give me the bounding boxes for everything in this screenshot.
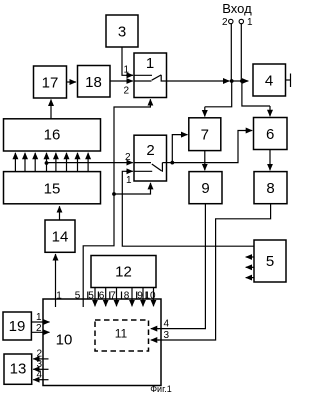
svg-text:18: 18 xyxy=(85,74,102,91)
svg-text:9: 9 xyxy=(137,291,143,302)
svg-text:3: 3 xyxy=(164,330,170,341)
svg-text:1: 1 xyxy=(126,175,132,186)
svg-text:2: 2 xyxy=(37,349,43,360)
svg-text:2: 2 xyxy=(36,323,42,334)
svg-text:6: 6 xyxy=(266,126,274,143)
svg-text:17: 17 xyxy=(42,75,59,92)
svg-text:8: 8 xyxy=(266,180,274,197)
svg-text:9: 9 xyxy=(201,180,209,197)
svg-text:1: 1 xyxy=(124,65,130,76)
svg-text:2: 2 xyxy=(125,152,131,163)
svg-text:7: 7 xyxy=(201,127,209,144)
svg-text:1: 1 xyxy=(56,291,62,302)
svg-text:11: 11 xyxy=(115,327,128,341)
svg-text:4: 4 xyxy=(265,73,273,90)
svg-text:2: 2 xyxy=(146,142,154,159)
svg-text:5: 5 xyxy=(88,291,94,302)
svg-text:6: 6 xyxy=(99,291,105,302)
svg-text:14: 14 xyxy=(52,229,69,246)
svg-text:1: 1 xyxy=(247,17,253,28)
svg-text:10: 10 xyxy=(56,332,73,349)
svg-text:19: 19 xyxy=(9,318,26,335)
svg-text:1: 1 xyxy=(36,312,42,323)
svg-text:1: 1 xyxy=(146,55,154,72)
svg-text:5: 5 xyxy=(266,253,274,270)
svg-text:3: 3 xyxy=(118,24,126,41)
svg-text:3: 3 xyxy=(37,359,43,370)
svg-text:4: 4 xyxy=(37,370,43,381)
svg-text:13: 13 xyxy=(10,361,27,378)
svg-text:15: 15 xyxy=(44,181,61,198)
svg-text:2: 2 xyxy=(222,17,228,28)
svg-text:4: 4 xyxy=(164,319,170,330)
svg-text:Вход: Вход xyxy=(222,1,252,16)
svg-text:Фиг.1: Фиг.1 xyxy=(150,384,172,394)
svg-text:16: 16 xyxy=(44,127,61,144)
svg-text:10: 10 xyxy=(144,291,156,302)
svg-text:7: 7 xyxy=(110,291,116,302)
svg-text:12: 12 xyxy=(115,264,132,281)
svg-text:5: 5 xyxy=(75,291,81,302)
svg-text:2: 2 xyxy=(124,86,130,97)
svg-text:8: 8 xyxy=(124,291,130,302)
